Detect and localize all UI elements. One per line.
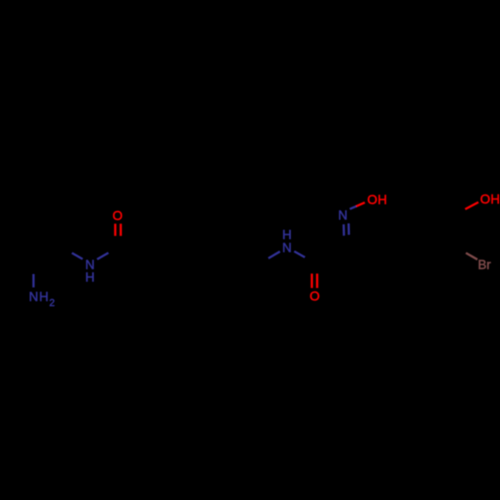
- bond Ch=Nox double (blue halves): [343, 224, 346, 235]
- svg-text:N: N: [338, 207, 347, 222]
- bond Cring-Br (brown half): [466, 253, 478, 260]
- svg-text:Br: Br: [478, 257, 492, 272]
- svg-text:H: H: [85, 270, 94, 285]
- wire bond N2-Cg (blue half): [294, 251, 305, 257]
- wire bond N1-Ca (blue half): [97, 253, 108, 259]
- wire bond Cf-N2 (blue half): [268, 252, 280, 259]
- svg-text:O: O: [310, 289, 320, 304]
- bond Nox-Oox (blue half): [350, 206, 357, 209]
- bond Ca=Oa double (red halves): [114, 224, 116, 236]
- svg-text:N: N: [282, 240, 291, 255]
- svg-text:OH: OH: [367, 192, 387, 207]
- svg-text:OH: OH: [480, 192, 500, 207]
- svg-text:O: O: [113, 208, 123, 223]
- bond Nox-Oox (red half): [356, 203, 365, 207]
- bond Cg=Ob double (red halves): [311, 274, 313, 288]
- wire bond C2-N amine (blue half): [32, 274, 34, 287]
- wire bond C1-N1 (blue half): [72, 253, 83, 259]
- bond Cring-Ophenol (red half): [465, 202, 478, 209]
